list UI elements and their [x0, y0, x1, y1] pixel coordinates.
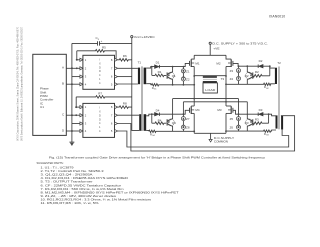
wire D4 cathode to M4 gate node — [159, 110, 189, 114]
resistor RG4 — [146, 130, 194, 137]
upper mid rail — [173, 98, 239, 100]
wire D2 anode to T2 secondary top — [263, 66, 275, 68]
top supply rail — [194, 54, 226, 56]
Vcc supply symbol and label — [131, 35, 155, 39]
wire A (U1 to IC1 pin2) — [66, 67, 80, 69]
resistor RG2 — [226, 83, 275, 90]
transistor Q1 — [167, 67, 176, 85]
svg-text:COMMON: COMMON — [214, 140, 228, 144]
resistor R4 — [152, 114, 167, 124]
wire C (U1 to IC2 pin2) — [66, 114, 80, 116]
svg-text:R4: R4 — [158, 119, 162, 123]
transistor Q3 — [245, 102, 253, 131]
driver IC2 box — [83, 103, 115, 137]
wire D1 cathode to M1 gate node — [159, 63, 189, 66]
IC1 pin7 output triangle — [115, 67, 118, 70]
wire T2 lower secondary top to D3 — [263, 114, 276, 116]
page margin text (rotated footer line 1) — [16, 26, 20, 141]
transformer T3 primary winding — [203, 76, 217, 78]
zener Z3 — [230, 66, 241, 73]
MOSFET M4 — [190, 106, 200, 114]
resistor R6 (IC1 pin8 to Vcc) — [118, 54, 132, 61]
diode D2 — [258, 59, 263, 68]
svg-text:T2: T2 — [277, 61, 281, 65]
left leg wire — [193, 67, 195, 134]
wire IC2 pin7 to T1 lower primary top — [118, 114, 140, 116]
svg-text:M2: M2 — [216, 61, 220, 65]
zener Z8 — [181, 121, 189, 132]
svg-text:D.C. SUPPLY + 300 to 375 V.D.C: D.C. SUPPLY + 300 to 375 V.D.C. — [212, 41, 268, 45]
svg-text:IXYS Corporation, 3540 Bassett: IXYS Corporation, 3540 Bassett Street, S… — [16, 26, 20, 141]
svg-text:Z6: Z6 — [230, 126, 234, 130]
resistor RG1 — [146, 84, 194, 91]
wire IC1 pin1 stub — [77, 59, 80, 61]
transformer T1 secondary winding (lower) — [144, 114, 147, 131]
IC1 pin3 input triangle — [80, 75, 83, 78]
document number IXAN0010 — [269, 15, 285, 19]
svg-text:Z7: Z7 — [186, 117, 190, 121]
svg-text:Fig. (15) Transformer coupled: Fig. (15) Transformer coupled Gate Drive… — [49, 156, 266, 160]
transformer T2 core — [278, 67, 279, 130]
wire M2 gate node to D2 — [233, 63, 258, 66]
wire IC2 pin3 to ground rail — [72, 123, 80, 125]
transformer T3 secondary winding — [203, 81, 217, 83]
svg-text:R8: R8 — [123, 101, 127, 105]
svg-text:A: A — [62, 66, 64, 70]
svg-text:R7: R7 — [98, 92, 102, 96]
svg-text:M3: M3 — [217, 108, 221, 112]
IC1 pin5 output triangle — [115, 83, 118, 86]
zener Z7 — [181, 102, 189, 121]
transformer T2 secondary winding (lower) — [276, 115, 278, 128]
transformer T1 primary winding (lower) — [139, 114, 141, 131]
IC2 pin8 output triangle — [115, 106, 118, 109]
svg-text:R3: R3 — [255, 118, 259, 122]
svg-text:R5: R5 — [102, 46, 106, 50]
wire IC1 pin6 stub — [118, 76, 132, 78]
transformer T1 primary winding (upper) — [138, 68, 140, 85]
IC1 pin6 output triangle — [115, 75, 118, 78]
IC2 pin1 input triangle — [80, 106, 83, 109]
svg-text:Z4: Z4 — [230, 77, 234, 81]
resistor R3 — [253, 114, 269, 124]
resistor R5 (pull-up on IC1 pin1) — [77, 46, 116, 60]
node C label — [62, 113, 65, 117]
node D label — [62, 128, 65, 132]
transformer T1 label — [138, 61, 142, 65]
MOSFET M2 — [216, 55, 233, 67]
svg-text:Vcc=+16VDC: Vcc=+16VDC — [134, 35, 155, 39]
svg-text:D: D — [99, 113, 101, 117]
svg-text:B: B — [62, 82, 64, 86]
svg-text:+VE: +VE — [213, 46, 219, 50]
figure caption — [49, 156, 266, 160]
resistor RG3 — [226, 130, 276, 137]
right leg wire — [225, 67, 227, 134]
MOSFET M3 — [217, 106, 233, 114]
svg-text:T3: T3 — [221, 77, 225, 81]
zener Z1 — [181, 67, 189, 74]
svg-text:Z2: Z2 — [186, 77, 190, 81]
MOSFET M1 — [190, 55, 200, 67]
transformer T1 secondary winding (upper) — [144, 68, 147, 85]
svg-text:D2: D2 — [259, 59, 263, 63]
svg-text:M4: M4 — [195, 108, 199, 112]
svg-text:11. R5,R6,R7,R8 : 10K, ¼ w, 5%: 11. R5,R6,R7,R8 : 10K, ¼ w, 5% — [41, 201, 100, 205]
svg-text:Q4: Q4 — [172, 121, 176, 125]
svg-text:D4: D4 — [156, 108, 160, 112]
PWM controller U1 box — [33, 54, 67, 135]
diode D4 — [155, 108, 160, 116]
svg-text:IXYS Semiconductor GmbH, Ediso: IXYS Semiconductor GmbH, Edisonstr. 15, … — [20, 27, 24, 141]
svg-text:U1: U1 — [40, 105, 44, 109]
svg-text:D1: D1 — [156, 60, 160, 64]
transformer T2 label — [277, 61, 281, 65]
ground symbol — [69, 142, 74, 146]
svg-text:R1: R1 — [158, 70, 162, 74]
diode D3 — [258, 108, 263, 116]
svg-text:T1: T1 — [138, 61, 142, 65]
IC2 pin3 input triangle — [80, 122, 83, 125]
transformer T2 secondary winding (upper) — [275, 68, 277, 84]
wire D (U1 to IC2 pin4) — [66, 130, 80, 132]
wire T1 upper secondary top to D1 — [146, 67, 154, 69]
wire IC1 pin3 to ground rail — [72, 76, 80, 78]
svg-text:X: X — [99, 61, 101, 65]
DC supply symbol and label — [209, 41, 268, 55]
DC supply common symbol — [209, 133, 234, 143]
zener Z4 — [230, 73, 241, 85]
IC2 pin7 output triangle — [115, 114, 118, 117]
suggested parts list — [37, 161, 179, 205]
wire IC1 pin5 to T1 primary bottom — [118, 83, 138, 85]
IC1 pin2 input triangle — [80, 67, 83, 70]
load box — [203, 83, 217, 93]
svg-text:R6: R6 — [123, 54, 127, 58]
capacitor CF — [72, 36, 132, 46]
IC2 pin5 output triangle — [115, 129, 118, 132]
node B label — [62, 82, 64, 86]
node A label — [62, 66, 64, 70]
IC2 pin4 input triangle — [80, 129, 83, 132]
svg-text:M1: M1 — [195, 61, 199, 65]
transistor Q2 — [245, 66, 253, 84]
svg-text:Q3: Q3 — [245, 121, 249, 125]
page margin text (rotated footer line 2) — [20, 27, 24, 141]
svg-text:D3: D3 — [259, 108, 263, 112]
zener Z5 — [230, 99, 241, 122]
wire T3 primary — [194, 75, 226, 77]
IC1 pin1 input triangle — [80, 58, 83, 61]
svg-text:Z1: Z1 — [186, 69, 190, 73]
IC2 pin2 input triangle — [80, 114, 83, 117]
zener Z2 — [181, 73, 189, 85]
IC2 pin6 output triangle — [115, 122, 118, 125]
bottom supply rail — [194, 132, 226, 134]
driver IC1 box — [83, 55, 115, 89]
IC1 pin4 input triangle — [80, 83, 83, 86]
transistor Q4 — [167, 99, 176, 132]
svg-text:D: D — [99, 69, 101, 73]
svg-text:LOAD: LOAD — [205, 88, 215, 92]
resistor R1 — [152, 67, 167, 77]
wire IC2 pin5 to inner loop — [118, 130, 289, 147]
svg-text:R2: R2 — [255, 70, 259, 74]
transformer T1 core — [141, 66, 142, 131]
svg-text:Z3: Z3 — [230, 69, 234, 73]
lower mid rail — [183, 101, 247, 103]
IC1 pin8 output triangle — [115, 58, 118, 61]
diode D1 — [155, 60, 160, 68]
zener Z6 — [230, 121, 241, 131]
svg-text:D: D — [99, 117, 101, 121]
transformer T2 primary winding — [281, 116, 283, 130]
wire B (U1 to IC1 pin4) — [66, 83, 80, 85]
wire D3 cathode to M3 gate node — [233, 110, 258, 114]
resistor R8 (IC2 pin8 to Vcc) — [118, 101, 132, 108]
svg-text:Z8: Z8 — [186, 126, 190, 130]
svg-text:IXAN0010: IXAN0010 — [269, 15, 285, 19]
junction node dots — [71, 59, 271, 132]
svg-text:D: D — [99, 65, 101, 69]
transformer T3 core — [203, 78, 217, 80]
wire T1 lower secondary top to D4 — [146, 114, 154, 116]
svg-text:Q2: Q2 — [245, 74, 249, 78]
resistor R2 — [253, 66, 270, 77]
svg-text:X: X — [99, 110, 101, 114]
svg-text:Q1: Q1 — [172, 74, 176, 78]
wire IC2 pin6 to outer loop — [118, 116, 295, 151]
resistor R7 (pull-up on IC2 pin1) — [76, 92, 132, 108]
svg-text:Z5: Z5 — [230, 117, 234, 121]
transformer T3 label — [221, 77, 225, 81]
wire IC1 pin7 to T1 primary top — [118, 67, 138, 69]
Vcc rail wire — [132, 38, 139, 131]
ground rail wire — [71, 43, 73, 142]
